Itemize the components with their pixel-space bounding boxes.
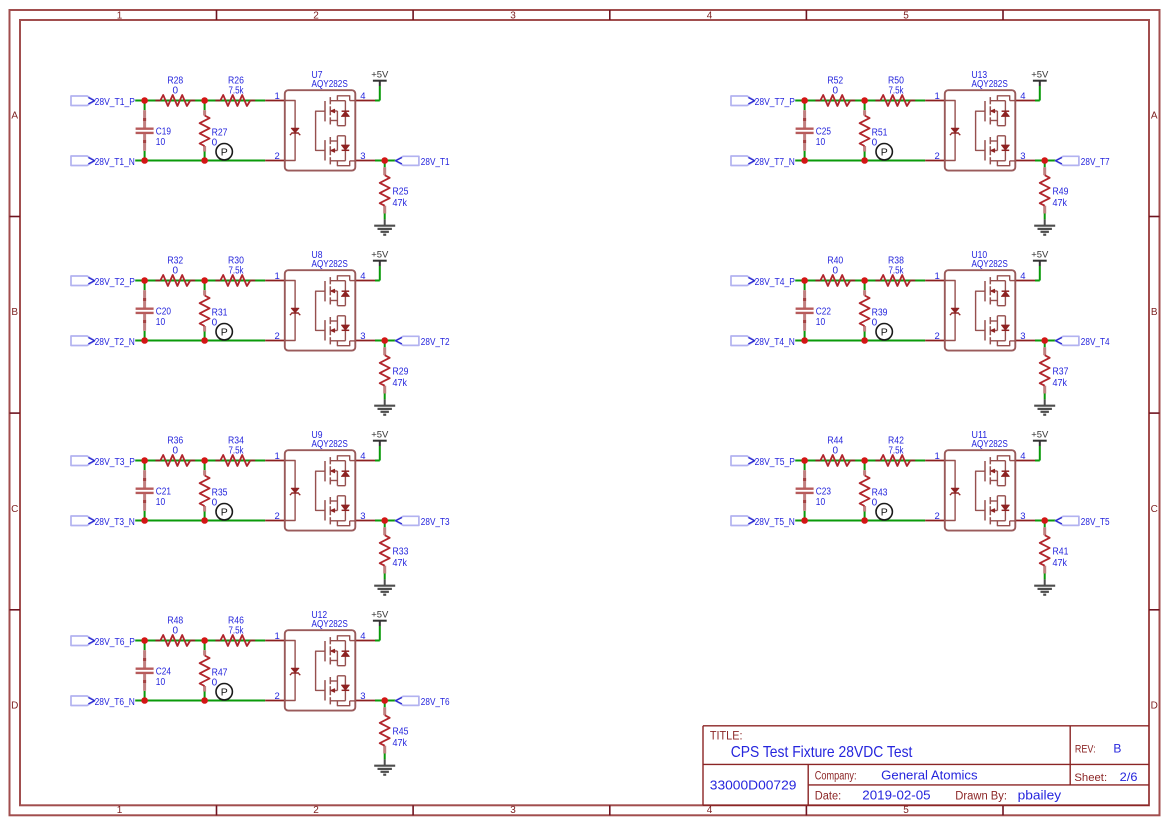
svg-text:1: 1	[275, 631, 280, 642]
svg-text:28V_T1_P: 28V_T1_P	[95, 97, 136, 108]
svg-text:C21: C21	[156, 486, 172, 497]
svg-text:28V_T3: 28V_T3	[421, 517, 450, 528]
svg-text:7.5k: 7.5k	[888, 265, 904, 276]
svg-text:47k: 47k	[1053, 198, 1068, 209]
svg-text:0: 0	[173, 265, 179, 276]
svg-text:4: 4	[1020, 271, 1025, 282]
svg-text:2/6: 2/6	[1120, 770, 1138, 784]
svg-text:R25: R25	[393, 186, 409, 197]
svg-text:2: 2	[313, 805, 319, 816]
svg-text:AQY282S: AQY282S	[312, 79, 349, 90]
svg-text:28V_T6: 28V_T6	[421, 697, 450, 708]
svg-text:P: P	[881, 506, 888, 518]
svg-text:B: B	[1113, 742, 1121, 756]
svg-text:0: 0	[173, 85, 179, 96]
svg-text:0: 0	[872, 497, 878, 508]
svg-text:+5V: +5V	[371, 430, 389, 441]
svg-text:0: 0	[212, 677, 218, 688]
svg-text:2: 2	[313, 11, 319, 22]
svg-text:C24: C24	[156, 666, 172, 677]
svg-text:Sheet:: Sheet:	[1074, 772, 1107, 784]
svg-text:47k: 47k	[393, 198, 408, 209]
svg-text:+5V: +5V	[371, 70, 389, 81]
svg-text:General Atomics: General Atomics	[881, 769, 977, 783]
svg-text:P: P	[221, 686, 228, 698]
svg-text:3: 3	[360, 151, 365, 162]
svg-text:C: C	[11, 504, 18, 515]
svg-text:0: 0	[833, 445, 839, 456]
svg-text:3: 3	[510, 11, 516, 22]
svg-text:0: 0	[872, 137, 878, 148]
svg-text:R41: R41	[1053, 546, 1069, 557]
svg-text:4: 4	[707, 11, 713, 22]
svg-text:AQY282S: AQY282S	[312, 439, 349, 450]
svg-text:+5V: +5V	[371, 610, 389, 621]
svg-text:Drawn By:: Drawn By:	[955, 791, 1007, 803]
svg-text:2019-02-05: 2019-02-05	[862, 789, 930, 803]
svg-text:3: 3	[1020, 511, 1025, 522]
svg-text:AQY282S: AQY282S	[312, 259, 349, 270]
svg-text:3: 3	[360, 511, 365, 522]
svg-text:3: 3	[360, 691, 365, 702]
svg-text:7.5k: 7.5k	[228, 445, 244, 456]
svg-text:C22: C22	[816, 306, 832, 317]
svg-text:AQY282S: AQY282S	[312, 619, 349, 630]
svg-text:C: C	[1151, 504, 1158, 515]
svg-text:+5V: +5V	[1031, 70, 1049, 81]
svg-text:P: P	[881, 146, 888, 158]
svg-text:5: 5	[903, 11, 909, 22]
svg-text:0: 0	[173, 445, 179, 456]
svg-text:1: 1	[935, 271, 940, 282]
svg-text:3: 3	[1020, 151, 1025, 162]
svg-text:pbailey: pbailey	[1018, 789, 1062, 803]
svg-text:+5V: +5V	[371, 250, 389, 261]
svg-text:28V_T2_N: 28V_T2_N	[95, 337, 135, 348]
svg-text:4: 4	[360, 631, 365, 642]
svg-text:0: 0	[872, 317, 878, 328]
svg-text:10: 10	[156, 317, 166, 328]
svg-text:2: 2	[935, 331, 940, 342]
svg-text:1: 1	[275, 451, 280, 462]
svg-text:C23: C23	[816, 486, 832, 497]
svg-text:1: 1	[935, 451, 940, 462]
svg-text:7.5k: 7.5k	[228, 265, 244, 276]
svg-text:2: 2	[935, 151, 940, 162]
svg-text:A: A	[11, 110, 18, 121]
svg-text:B: B	[11, 307, 18, 318]
svg-text:10: 10	[816, 317, 826, 328]
svg-text:47k: 47k	[1053, 378, 1068, 389]
svg-text:Date:: Date:	[815, 791, 841, 803]
svg-text:1: 1	[117, 805, 123, 816]
svg-text:28V_T5_P: 28V_T5_P	[755, 457, 796, 468]
svg-text:28V_T3_N: 28V_T3_N	[95, 517, 135, 528]
svg-text:1: 1	[275, 91, 280, 102]
svg-text:7.5k: 7.5k	[228, 625, 244, 636]
svg-text:AQY282S: AQY282S	[972, 259, 1009, 270]
svg-text:47k: 47k	[1053, 558, 1068, 569]
svg-text:28V_T7: 28V_T7	[1081, 157, 1110, 168]
svg-text:0: 0	[212, 497, 218, 508]
svg-text:33000D00729: 33000D00729	[710, 779, 797, 793]
svg-text:28V_T6_N: 28V_T6_N	[95, 697, 135, 708]
svg-text:P: P	[221, 146, 228, 158]
svg-text:28V_T3_P: 28V_T3_P	[95, 457, 136, 468]
svg-text:10: 10	[816, 497, 826, 508]
svg-text:1: 1	[117, 11, 123, 22]
svg-text:R29: R29	[393, 366, 409, 377]
svg-text:28V_T6_P: 28V_T6_P	[95, 637, 136, 648]
svg-text:28V_T4_N: 28V_T4_N	[755, 337, 795, 348]
svg-text:4: 4	[360, 271, 365, 282]
svg-text:3: 3	[510, 805, 516, 816]
svg-text:CPS Test Fixture 28VDC Test: CPS Test Fixture 28VDC Test	[731, 744, 913, 761]
svg-text:28V_T1_N: 28V_T1_N	[95, 157, 135, 168]
svg-text:R45: R45	[393, 726, 409, 737]
svg-text:Company:: Company:	[815, 771, 857, 783]
svg-text:28V_T4: 28V_T4	[1081, 337, 1110, 348]
svg-text:P: P	[881, 326, 888, 338]
svg-text:28V_T1: 28V_T1	[421, 157, 450, 168]
svg-text:4: 4	[1020, 91, 1025, 102]
svg-text:4: 4	[360, 451, 365, 462]
svg-text:A: A	[1151, 110, 1158, 121]
svg-text:P: P	[221, 326, 228, 338]
svg-text:28V_T5_N: 28V_T5_N	[755, 517, 795, 528]
svg-text:10: 10	[156, 677, 166, 688]
svg-text:R37: R37	[1053, 366, 1069, 377]
svg-text:1: 1	[275, 271, 280, 282]
svg-text:2: 2	[275, 331, 280, 342]
svg-text:2: 2	[275, 691, 280, 702]
svg-text:2: 2	[275, 151, 280, 162]
svg-text:C25: C25	[816, 126, 832, 137]
svg-text:+5V: +5V	[1031, 430, 1049, 441]
svg-text:3: 3	[360, 331, 365, 342]
svg-text:0: 0	[833, 265, 839, 276]
svg-text:10: 10	[156, 497, 166, 508]
svg-text:7.5k: 7.5k	[228, 85, 244, 96]
svg-text:7.5k: 7.5k	[888, 445, 904, 456]
svg-text:D: D	[1151, 700, 1158, 711]
svg-text:0: 0	[212, 317, 218, 328]
svg-text:B: B	[1151, 307, 1158, 318]
svg-text:10: 10	[156, 137, 166, 148]
svg-text:28V_T4_P: 28V_T4_P	[755, 277, 796, 288]
svg-text:2: 2	[275, 511, 280, 522]
svg-text:2: 2	[935, 511, 940, 522]
svg-text:4: 4	[707, 805, 713, 816]
svg-text:D: D	[11, 700, 18, 711]
svg-text:+5V: +5V	[1031, 250, 1049, 261]
svg-text:AQY282S: AQY282S	[972, 79, 1009, 90]
svg-text:28V_T2_P: 28V_T2_P	[95, 277, 136, 288]
svg-text:C20: C20	[156, 306, 172, 317]
svg-text:47k: 47k	[393, 558, 408, 569]
svg-text:28V_T7_N: 28V_T7_N	[755, 157, 795, 168]
svg-text:4: 4	[360, 91, 365, 102]
svg-text:0: 0	[833, 85, 839, 96]
svg-text:P: P	[221, 506, 228, 518]
svg-text:47k: 47k	[393, 738, 408, 749]
svg-text:28V_T2: 28V_T2	[421, 337, 450, 348]
svg-text:R33: R33	[393, 546, 409, 557]
svg-text:28V_T7_P: 28V_T7_P	[755, 97, 796, 108]
svg-text:47k: 47k	[393, 378, 408, 389]
svg-text:R49: R49	[1053, 186, 1069, 197]
svg-text:0: 0	[173, 625, 179, 636]
svg-text:1: 1	[935, 91, 940, 102]
svg-text:REV:: REV:	[1075, 744, 1096, 756]
svg-text:3: 3	[1020, 331, 1025, 342]
svg-text:0: 0	[212, 137, 218, 148]
svg-text:AQY282S: AQY282S	[972, 439, 1009, 450]
svg-text:4: 4	[1020, 451, 1025, 462]
svg-text:C19: C19	[156, 126, 172, 137]
svg-text:7.5k: 7.5k	[888, 85, 904, 96]
svg-text:5: 5	[903, 805, 909, 816]
svg-text:10: 10	[816, 137, 826, 148]
svg-text:TITLE:: TITLE:	[710, 730, 743, 742]
svg-text:28V_T5: 28V_T5	[1081, 517, 1110, 528]
